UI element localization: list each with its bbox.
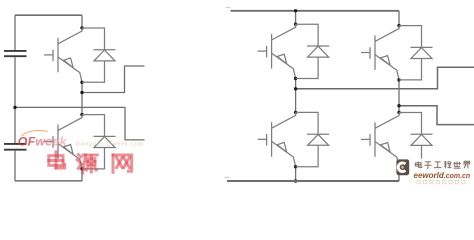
svg-text:OFweek: OFweek <box>18 134 68 148</box>
svg-text:dianyuan.ofweek.com: dianyuan.ofweek.com <box>76 142 144 148</box>
svg-text:eeworld.com.cn: eeworld.com.cn <box>414 171 471 180</box>
